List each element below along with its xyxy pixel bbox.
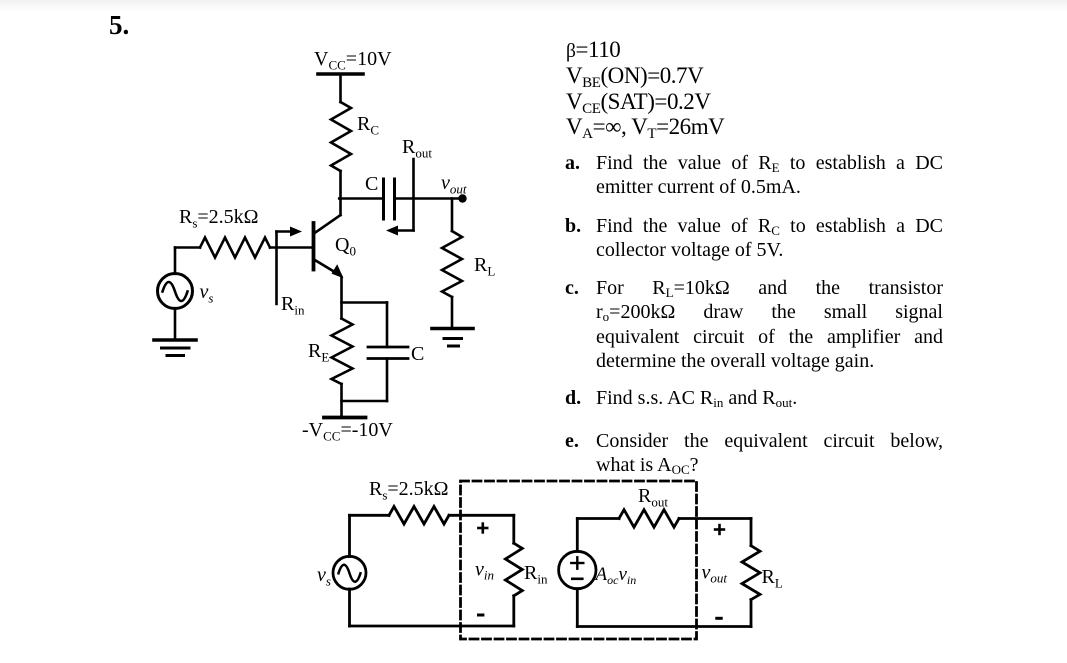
svg-text:C: C	[411, 343, 424, 365]
svg-text:Rin: Rin	[281, 293, 305, 318]
svg-text:Rout: Rout	[402, 136, 432, 161]
svg-text:RC: RC	[357, 113, 379, 138]
svg-text:RL: RL	[474, 254, 495, 279]
svg-text:Aocvin: Aocvin	[594, 564, 637, 587]
svg-text:vin: vin	[475, 559, 494, 583]
svg-text:-VCC=-10V: -VCC=-10V	[302, 419, 393, 444]
svg-text:vs: vs	[317, 564, 331, 589]
svg-text:vs: vs	[200, 281, 214, 306]
svg-text:vout: vout	[702, 562, 728, 586]
svg-text:C: C	[365, 173, 378, 195]
svg-text:Rs=2.5kΩ: Rs=2.5kΩ	[179, 206, 259, 231]
svg-text:vout: vout	[441, 172, 467, 197]
svg-text:RE: RE	[308, 340, 329, 365]
svg-text:RL: RL	[762, 566, 783, 591]
svg-text:Rout: Rout	[638, 485, 668, 510]
svg-text:Rin: Rin	[524, 562, 548, 587]
svg-text:VCC=10V: VCC=10V	[314, 48, 392, 73]
svg-text:Rs=2.5kΩ: Rs=2.5kΩ	[369, 478, 449, 503]
svg-text:Q0: Q0	[335, 234, 356, 259]
